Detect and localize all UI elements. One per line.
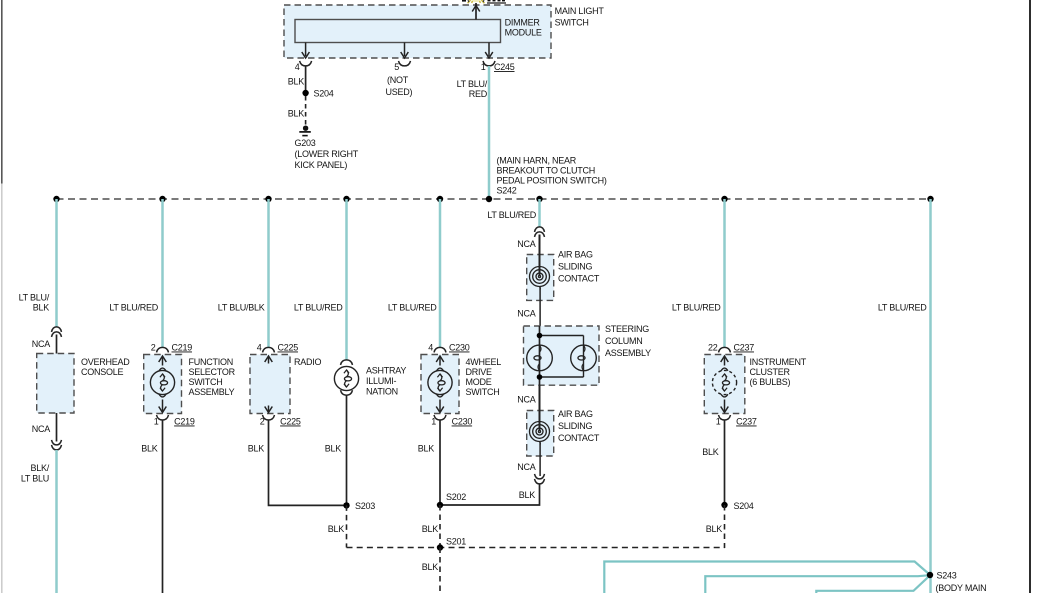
svg-text:SELECTOR: SELECTOR — [189, 367, 236, 377]
chevron above bulb (function selector switch assembly) — [159, 368, 166, 371]
steering bulb left — [527, 345, 553, 371]
chevron above bulb (4WD mode switch) — [437, 368, 444, 371]
wire LT BLU/RED pin1 to S242 — [488, 66, 491, 199]
NCA arrows (overhead console top) — [52, 327, 62, 332]
wire BLK ground bus (dashed) — [347, 547, 725, 549]
connector C230 pin 1 (bottom) — [434, 415, 446, 420]
svg-text:4: 4 — [295, 62, 300, 72]
svg-text:NCA: NCA — [517, 239, 535, 249]
chevron below bulb (instrument cluster) — [721, 394, 728, 397]
bus junction instrument cluster drop — [721, 196, 727, 202]
svg-text:(NOT: (NOT — [387, 75, 409, 85]
svg-text:BLK: BLK — [706, 524, 723, 534]
svg-text:SWITCH: SWITCH — [189, 377, 223, 387]
connector C245 pin 1 — [483, 61, 495, 66]
ground G203 — [303, 126, 308, 131]
wire BLK S201 down (dashed) — [439, 548, 441, 593]
svg-text:(MAIN HARN, NEAR: (MAIN HARN, NEAR — [497, 156, 577, 166]
wire BLK pin4 to S204 — [305, 66, 307, 91]
bus junction ashtray drop — [343, 196, 349, 202]
wire BLK steering to S202 — [440, 484, 540, 505]
arrow out of radio — [268, 406, 270, 412]
connector C225 pin 4 (top) — [263, 347, 275, 352]
svg-text:BLK: BLK — [418, 444, 435, 454]
illumination lamp symbol (cut off) — [468, 0, 485, 3]
connector C225 pin 2 (bottom) — [263, 415, 275, 420]
4WD mode switch box — [421, 355, 459, 414]
svg-text:C225: C225 — [278, 343, 299, 353]
svg-text:CLUSTER: CLUSTER — [750, 367, 791, 377]
wire LT BLU/RED bus to ashtray lamp — [345, 199, 348, 360]
svg-text:BLK: BLK — [328, 524, 345, 534]
air bag sliding contact 2 box — [527, 411, 554, 457]
svg-text:CONSOLE: CONSOLE — [81, 367, 124, 377]
wire BLK S204 to bus (dashed) — [724, 505, 726, 548]
svg-text:BLK: BLK — [141, 444, 158, 454]
svg-text:BLK: BLK — [519, 490, 536, 500]
connector C230 pin 4 (top) — [434, 347, 446, 352]
svg-text:S204: S204 — [734, 501, 754, 511]
splice S204 (lower) — [721, 502, 727, 508]
svg-text:ASSEMBLY: ASSEMBLY — [605, 348, 651, 358]
wire LT BLU/RED bus to S243 — [929, 199, 932, 593]
wire through steering column box — [539, 326, 541, 385]
wire BLK S202 to S201 (dashed) — [439, 505, 441, 548]
svg-text:2: 2 — [151, 343, 156, 353]
NCA arrows (below airbag contact 2) — [535, 474, 545, 479]
pin 6 label (cut off) — [462, 0, 466, 2]
svg-text:NCA: NCA — [517, 309, 535, 319]
svg-text:AIR BAG: AIR BAG — [558, 409, 593, 419]
svg-text:S242: S242 — [497, 186, 517, 196]
svg-text:(6 BULBS): (6 BULBS) — [750, 377, 791, 387]
wire BLK ashtray to S203 — [346, 395, 348, 503]
svg-text:BLK: BLK — [325, 444, 342, 454]
svg-text:C245: C245 — [494, 62, 515, 72]
connector C219 pin 2 (top) — [157, 347, 169, 352]
bus junction 4WD switch drop — [437, 196, 443, 202]
svg-text:BLK: BLK — [288, 77, 305, 87]
wire LT BLU/RED bus to steering chain — [538, 199, 541, 227]
svg-text:SLIDING: SLIDING — [558, 421, 593, 431]
svg-text:LT BLU/RED: LT BLU/RED — [294, 303, 343, 313]
svg-text:LT BLU/BLK: LT BLU/BLK — [218, 303, 265, 313]
splice S204 (dimmer ground) — [302, 90, 308, 96]
svg-text:BLK: BLK — [422, 524, 439, 534]
svg-text:4: 4 — [428, 343, 433, 353]
air bag sliding contact 2 spiral — [536, 428, 543, 435]
wire to overhead console — [56, 335, 58, 354]
wire steering column to airbag contact 2 — [539, 385, 541, 431]
svg-text:LT BLU/RED: LT BLU/RED — [672, 303, 721, 313]
svg-text:1: 1 — [481, 62, 486, 72]
steering column assembly box — [524, 326, 600, 385]
svg-text:LT BLU: LT BLU — [21, 474, 49, 484]
svg-text:C219: C219 — [174, 417, 195, 427]
wire LT BLU/BLK bus to NCA (overhead console) — [55, 199, 58, 327]
svg-text:C230: C230 — [452, 417, 473, 427]
bus junction splice S242 — [486, 196, 492, 202]
splice S201 — [437, 544, 443, 550]
svg-text:KICK PANEL): KICK PANEL) — [295, 160, 348, 170]
svg-text:5: 5 — [394, 62, 399, 72]
harness wire 2 to S243 — [705, 575, 929, 593]
steering junction top — [537, 333, 543, 339]
svg-text:C237: C237 — [736, 417, 757, 427]
bus wire LT BLU/RED (dashed) — [57, 198, 931, 200]
wire to illumination lamp (pin 6, cut off at top) — [475, 3, 477, 20]
steering bulb right — [571, 345, 597, 371]
right page border — [1029, 0, 1031, 593]
wire airbag 1 to steering column — [539, 288, 541, 327]
arrow out of 4WD mode switch — [439, 400, 441, 412]
splice S203 — [343, 502, 349, 508]
svg-text:AIR BAG: AIR BAG — [558, 250, 593, 260]
chevron above bulb (instrument cluster) — [721, 368, 728, 371]
svg-text:C219: C219 — [172, 343, 193, 353]
arrow into function selector switch assembly — [162, 357, 164, 366]
arrow into 4WD mode switch — [439, 357, 441, 366]
svg-text:DIMMER: DIMMER — [505, 18, 541, 28]
svg-text:BLK: BLK — [248, 444, 265, 454]
svg-text:MODULE: MODULE — [505, 28, 542, 38]
svg-text:BLK/: BLK/ — [30, 463, 49, 473]
bus junction overhead console drop — [53, 196, 59, 202]
air bag sliding contact 1 box — [527, 255, 554, 301]
steering bulb branch wires — [540, 335, 584, 337]
NCA arrows (above airbag contact 1) — [535, 227, 545, 232]
bulb (4WD mode switch) — [428, 370, 452, 394]
svg-text:S201: S201 — [446, 536, 466, 546]
svg-text:SWITCH: SWITCH — [466, 387, 500, 397]
svg-text:NCA: NCA — [32, 339, 50, 349]
dimmer pin 4 arrow — [305, 43, 307, 57]
chevron below bulb (4WD mode switch) — [437, 394, 444, 397]
svg-text:4WHEEL: 4WHEEL — [466, 357, 502, 367]
svg-text:S243: S243 — [937, 571, 957, 581]
connector C219 pin 1 (bottom) — [157, 415, 169, 420]
bulb (instrument cluster) — [712, 370, 736, 394]
svg-text:LT BLU/: LT BLU/ — [457, 79, 488, 89]
svg-text:C225: C225 — [280, 417, 301, 427]
wire BLK/LT BLU to bottom — [55, 450, 58, 593]
bus junction steering column drop — [536, 196, 542, 202]
wire LT BLU bus to radio — [267, 199, 270, 347]
left page border (light lower segment) — [1, 184, 3, 593]
svg-text:BLK: BLK — [422, 562, 439, 572]
svg-text:C237: C237 — [734, 343, 755, 353]
svg-text:NATION: NATION — [366, 387, 398, 397]
bulb (function selector switch assembly) — [150, 370, 174, 394]
svg-text:CONTACT: CONTACT — [558, 433, 600, 443]
left page border (dark upper segment) — [1, 0, 3, 184]
wire BLK radio to S203 — [269, 420, 347, 505]
wire BLK instrument cluster to S204 — [724, 420, 726, 503]
connector ashtray bottom — [341, 390, 353, 395]
svg-text:(LOWER RIGHT: (LOWER RIGHT — [295, 149, 359, 159]
arrow out of function selector switch assembly — [162, 400, 164, 412]
svg-text:CONTACT: CONTACT — [558, 274, 600, 284]
svg-text:INSTRUMENT: INSTRUMENT — [750, 357, 807, 367]
svg-text:USED): USED) — [386, 87, 413, 97]
svg-text:S204: S204 — [314, 89, 334, 99]
svg-text:LT BLU/: LT BLU/ — [19, 293, 50, 303]
svg-text:RED: RED — [469, 89, 488, 99]
chevron below bulb (function selector switch assembly) — [159, 394, 166, 397]
svg-text:STEERING: STEERING — [605, 324, 649, 334]
svg-text:OVERHEAD: OVERHEAD — [81, 357, 130, 367]
svg-text:BLK: BLK — [33, 303, 50, 313]
wire BLK function selector to bottom — [162, 420, 164, 593]
wire airbag 2 down — [539, 443, 541, 477]
overhead console box — [37, 354, 74, 414]
svg-text:S202: S202 — [446, 492, 466, 502]
svg-text:RADIO: RADIO — [294, 357, 322, 367]
svg-text:(BODY MAIN: (BODY MAIN — [936, 583, 987, 593]
instrument cluster box — [704, 355, 745, 414]
svg-text:ILLUMI-: ILLUMI- — [366, 376, 397, 386]
connector C245 pin 4 — [300, 61, 312, 66]
svg-text:NCA: NCA — [32, 424, 50, 434]
radio box — [250, 355, 290, 414]
bus junction radio drop — [265, 196, 271, 202]
svg-text:1: 1 — [716, 417, 721, 427]
svg-text:SLIDING: SLIDING — [558, 262, 593, 272]
wire LT BLU bus to function selector switch assembly — [161, 199, 164, 347]
svg-text:1: 1 — [431, 417, 436, 427]
svg-text:1: 1 — [154, 417, 159, 427]
arrow into instrument cluster — [724, 357, 726, 366]
harness wire 3 to S243 — [816, 576, 929, 593]
svg-text:22: 22 — [708, 343, 718, 353]
arrow into radio — [268, 357, 270, 364]
connector C237 pin 1 (bottom) — [719, 415, 731, 420]
wire LT BLU bus to instrument cluster — [723, 199, 726, 347]
svg-text:MAIN LIGHT: MAIN LIGHT — [555, 6, 605, 16]
air bag sliding contact 1 spiral — [536, 273, 543, 280]
svg-text:PEDAL POSITION SWITCH): PEDAL POSITION SWITCH) — [497, 176, 607, 186]
harness wire 1 to S243 — [604, 562, 929, 593]
svg-text:NCA: NCA — [517, 395, 535, 405]
ashtray bulb — [334, 366, 358, 390]
svg-text:SWITCH: SWITCH — [555, 18, 589, 28]
arrow out of instrument cluster — [724, 400, 726, 412]
connector label at top (cut off, underlined) — [487, 2, 506, 3]
bulb filament (instrument cluster) — [725, 374, 727, 381]
svg-text:LT BLU/RED: LT BLU/RED — [109, 303, 158, 313]
NCA arrows (overhead console bottom) — [52, 440, 62, 445]
svg-text:S203: S203 — [355, 501, 375, 511]
function selector switch assembly box — [144, 355, 182, 414]
svg-text:2: 2 — [260, 417, 265, 427]
bus junction function selector drop — [159, 196, 165, 202]
connector C237 pin 22 (top) — [719, 347, 731, 352]
main light switch enclosure (dashed box) — [284, 5, 551, 58]
svg-text:NCA: NCA — [517, 462, 535, 472]
svg-text:BLK: BLK — [288, 109, 305, 119]
bulb filament (4WD mode switch) — [440, 374, 442, 381]
bus junction body harness drop — [927, 196, 933, 202]
splice S243 — [927, 572, 933, 578]
wire BLK S203 to S201 (dashed) — [346, 505, 348, 547]
wire BLK S204 to G203 (dashed) — [305, 96, 307, 126]
bulb filament (function selector switch assembly) — [163, 374, 165, 381]
steering junction bottom — [537, 374, 543, 380]
svg-text:4: 4 — [257, 343, 262, 353]
svg-text:BLK: BLK — [702, 447, 719, 457]
wire LT BLU bus to 4WD mode switch — [439, 199, 442, 347]
svg-text:BREAKOUT TO CLUTCH: BREAKOUT TO CLUTCH — [497, 166, 596, 176]
wire into airbag contact 1 — [539, 235, 541, 277]
svg-text:ASHTRAY: ASHTRAY — [366, 366, 406, 376]
svg-text:ASSEMBLY: ASSEMBLY — [189, 387, 235, 397]
svg-text:G203: G203 — [295, 138, 316, 148]
wire from overhead console — [56, 413, 58, 442]
dimmer pin 1 arrow — [488, 43, 490, 57]
svg-text:DRIVE: DRIVE — [466, 367, 493, 377]
svg-text:LT BLU/RED: LT BLU/RED — [388, 303, 437, 313]
svg-text:LT BLU/RED: LT BLU/RED — [487, 210, 536, 220]
ashtray bulb filament — [347, 370, 349, 377]
wire BLK 4WD switch to S202 — [439, 420, 441, 503]
svg-text:MODE: MODE — [466, 377, 492, 387]
connector ashtray top — [341, 360, 353, 365]
svg-text:LT BLU/RED: LT BLU/RED — [878, 303, 927, 313]
svg-text:FUNCTION: FUNCTION — [189, 357, 234, 367]
svg-text:COLUMN: COLUMN — [605, 336, 643, 346]
dimmer module box — [295, 20, 501, 43]
svg-text:C230: C230 — [449, 343, 470, 353]
splice S202 — [437, 502, 443, 508]
dimmer pin 5 arrow — [404, 43, 406, 57]
connector C245 pin 5 — [399, 61, 411, 66]
